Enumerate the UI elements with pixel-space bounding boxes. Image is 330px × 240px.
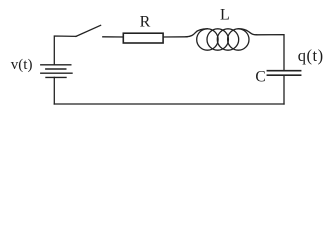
- switch (open blade): [76, 25, 101, 36]
- capacitor C: [267, 71, 300, 76]
- wire bottom rail: [54, 103, 284, 105]
- svg-text:R: R: [140, 14, 151, 31]
- battery v(t): [41, 65, 72, 78]
- wire bottom-left rail (battery bottom to corner): [53, 77, 55, 104]
- wire switch to resistor: [103, 36, 123, 38]
- svg-text:C: C: [255, 69, 265, 86]
- svg-text:L: L: [220, 7, 230, 24]
- resistor R: [123, 33, 163, 43]
- svg-text:q(t): q(t): [298, 46, 324, 65]
- wire inductor to top-right corner down to capacitor: [257, 35, 285, 70]
- wire left rail top (battery top to top-left corner to switch pivot): [54, 36, 76, 65]
- svg-text:v(t): v(t): [11, 57, 33, 73]
- wire resistor to inductor: [163, 36, 187, 38]
- wire capacitor to bottom-right corner: [283, 76, 285, 104]
- inductor L: [186, 29, 257, 50]
